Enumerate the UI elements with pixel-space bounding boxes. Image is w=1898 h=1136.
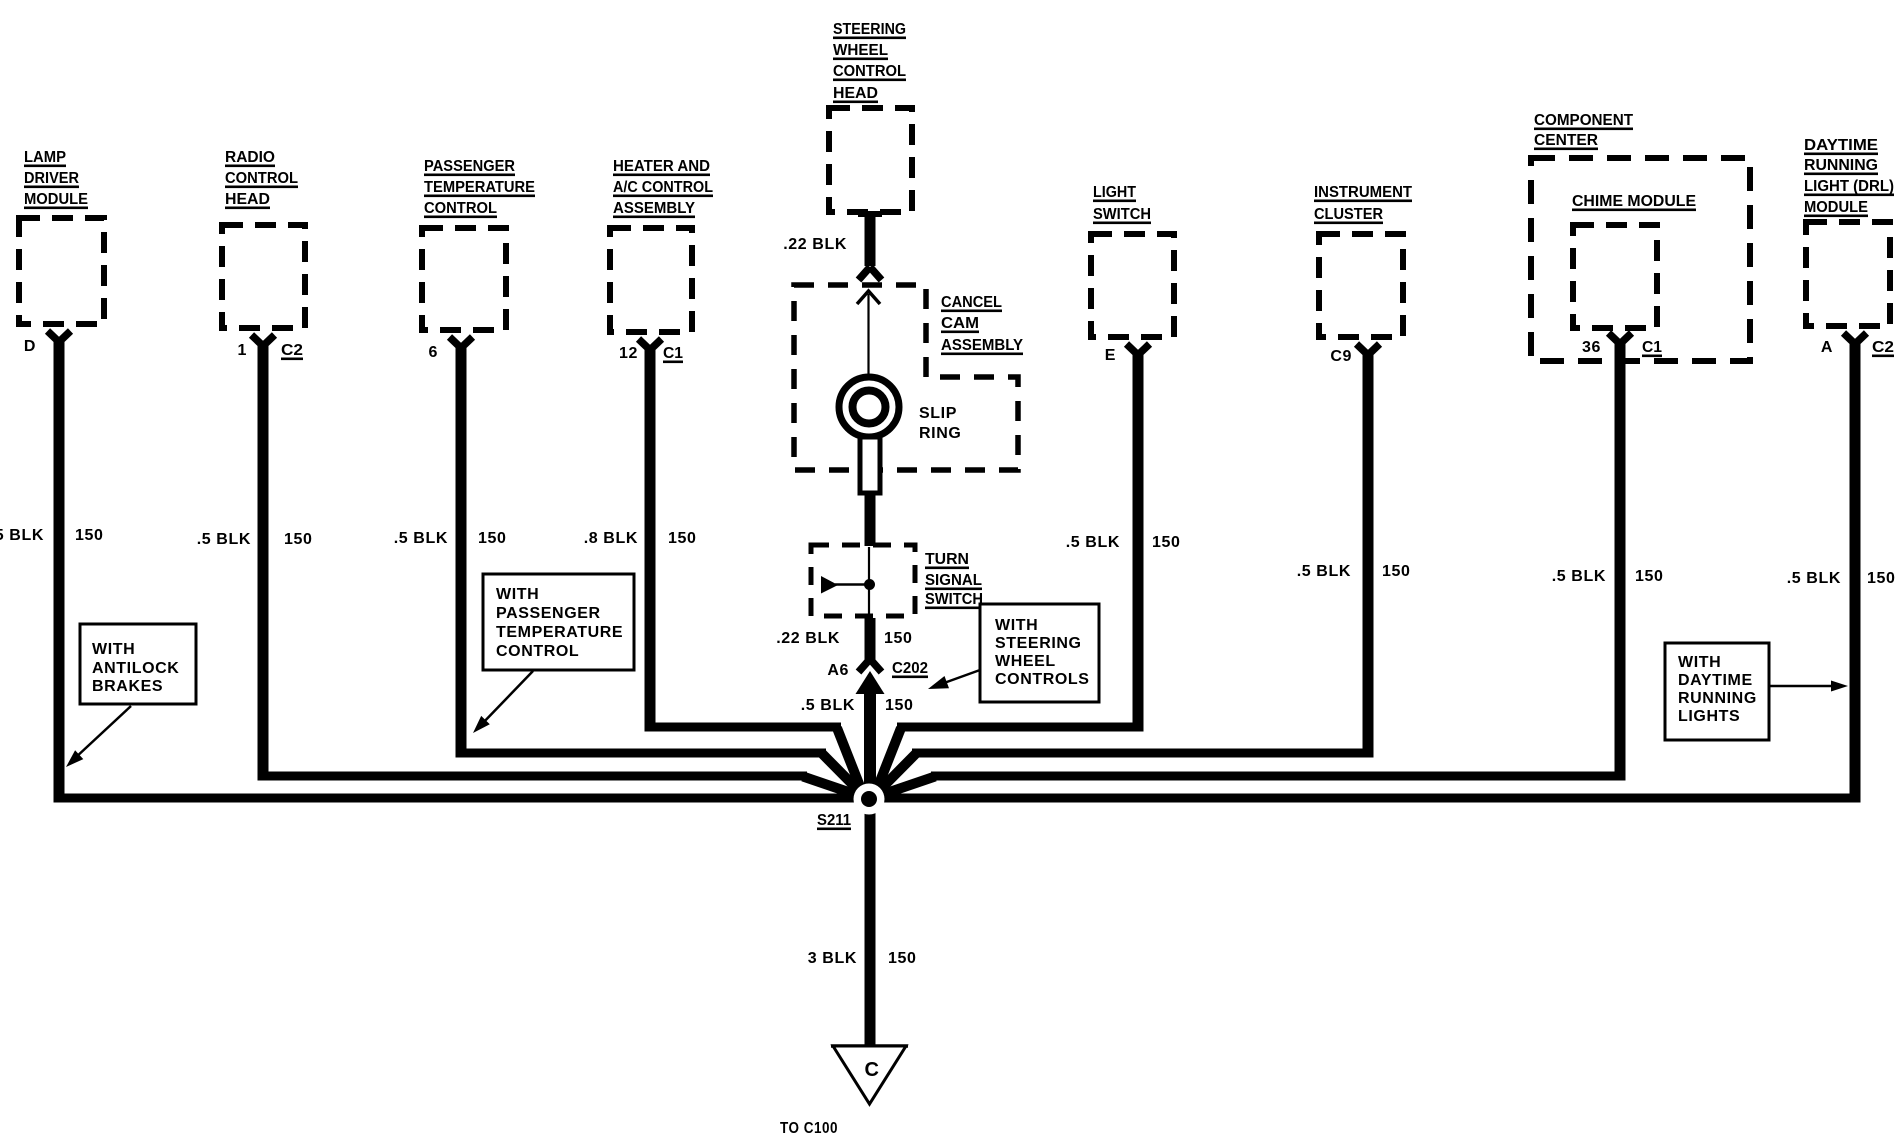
wire .22 BLK 150 below turn signal switch — [865, 618, 876, 661]
callout WITH DAYTIME RUNNING LIGHTS — [1665, 643, 1769, 740]
wire .8 BLK 150 from heater a/c assembly — [645, 345, 656, 732]
svg-text:C: C — [864, 1059, 879, 1081]
splice S211 — [854, 784, 885, 815]
connector V (down) at end of .22 BLK wire — [859, 267, 882, 280]
svg-text:SIGNAL: SIGNAL — [925, 572, 982, 589]
svg-text:INSTRUMENT: INSTRUMENT — [1314, 184, 1412, 201]
svg-text:.5 BLK: .5 BLK — [1297, 563, 1351, 580]
module LIGHT SWITCH box — [1091, 234, 1174, 337]
svg-text:150: 150 — [668, 530, 697, 547]
svg-text:S211: S211 — [817, 812, 851, 829]
svg-text:STEERING: STEERING — [833, 21, 906, 38]
svg-text:150: 150 — [1867, 570, 1896, 587]
svg-text:WITH: WITH — [1678, 654, 1721, 671]
thin arrow up inside cancel cam — [867, 294, 869, 378]
callout WITH ANTILOCK BRAKES — [80, 624, 196, 704]
svg-text:HEAD: HEAD — [833, 85, 878, 102]
connector Y at instrument cluster — [1357, 344, 1380, 355]
bus wire DRL module to S211 — [869, 794, 1861, 803]
module HEATER AND A/C CONTROL ASSEMBLY box — [610, 228, 692, 332]
svg-text:DRIVER: DRIVER — [24, 170, 79, 187]
wire .5 BLK 150 from light switch — [1133, 350, 1144, 732]
svg-text:150: 150 — [1635, 568, 1664, 585]
slip ring symbol — [839, 377, 899, 437]
connector Y at chime module — [1609, 333, 1632, 344]
bus wire passenger temp to S211 — [456, 749, 827, 758]
svg-text:DAYTIME: DAYTIME — [1678, 672, 1753, 689]
svg-text:SWITCH: SWITCH — [925, 591, 983, 608]
connector Y at light switch — [1127, 344, 1150, 355]
svg-text:TO C100: TO C100 — [780, 1120, 838, 1136]
connector Y at lamp driver module — [48, 331, 71, 342]
svg-text:150: 150 — [1152, 534, 1181, 551]
wire .5 BLK 150 from passenger temperature control — [456, 343, 467, 758]
svg-text:RUNNING: RUNNING — [1678, 690, 1757, 707]
bus wire heater a/c to S211 — [645, 723, 842, 732]
svg-text:CAM: CAM — [941, 315, 979, 332]
svg-text:CONTROLS: CONTROLS — [995, 671, 1090, 688]
wire .5 BLK 150 from lamp driver module — [54, 337, 65, 803]
svg-text:.5 BLK: .5 BLK — [1787, 570, 1841, 587]
svg-text:.22 BLK: .22 BLK — [776, 630, 840, 647]
bus wire light switch to S211 — [897, 723, 1144, 732]
svg-text:CHIME MODULE: CHIME MODULE — [1572, 193, 1696, 210]
svg-text:HEAD: HEAD — [225, 191, 270, 208]
svg-text:WHEEL: WHEEL — [833, 42, 888, 59]
svg-text:RING: RING — [919, 425, 961, 442]
svg-text:CONTROL: CONTROL — [225, 170, 298, 187]
svg-text:LIGHTS: LIGHTS — [1678, 708, 1740, 725]
svg-text:6: 6 — [429, 344, 439, 361]
svg-text:C2: C2 — [1872, 339, 1894, 356]
svg-text:.5 BLK: .5 BLK — [394, 530, 448, 547]
svg-text:.5 BLK: .5 BLK — [1552, 568, 1606, 585]
svg-text:PASSENGER: PASSENGER — [496, 605, 601, 622]
svg-text:TEMPERATURE: TEMPERATURE — [424, 179, 535, 196]
connector Y at radio control head — [252, 335, 275, 346]
svg-text:.22 BLK: .22 BLK — [783, 236, 847, 253]
wire .5 BLK 150 arrow up to C202 — [856, 671, 885, 694]
svg-text:12: 12 — [619, 345, 638, 362]
svg-text:A6: A6 — [827, 662, 849, 679]
wire .5 BLK 150 from instrument cluster — [1363, 350, 1374, 758]
svg-text:E: E — [1105, 347, 1116, 364]
connector A6 / C202 — [859, 659, 882, 672]
svg-text:150: 150 — [1382, 563, 1411, 580]
module RADIO CONTROL HEAD box — [222, 225, 305, 328]
svg-text:150: 150 — [284, 531, 313, 548]
svg-text:LAMP: LAMP — [24, 149, 66, 166]
svg-text:WITH: WITH — [995, 617, 1038, 634]
svg-text:RADIO: RADIO — [225, 149, 275, 166]
svg-text:ASSEMBLY: ASSEMBLY — [941, 337, 1023, 354]
wire 3 BLK 150 down from S211 — [865, 799, 876, 1046]
wire from slip ring to turn signal switch — [865, 493, 876, 546]
svg-text:CENTER: CENTER — [1534, 132, 1598, 149]
bus wire chime module to S211 — [931, 772, 1626, 781]
svg-text:150: 150 — [888, 950, 917, 967]
svg-text:STEERING: STEERING — [995, 635, 1082, 652]
turn signal switch dashed box — [811, 545, 915, 616]
svg-text:150: 150 — [884, 630, 913, 647]
module STEERING WHEEL CONTROL HEAD box — [829, 108, 912, 212]
wire .5 BLK 150 from DRL module — [1850, 339, 1861, 803]
svg-text:150: 150 — [885, 697, 914, 714]
wire .5 BLK 150 from chime module — [1615, 339, 1626, 781]
bus wire lamp driver to S211 — [54, 794, 870, 803]
svg-text:3 BLK: 3 BLK — [808, 950, 857, 967]
callout WITH STEERING WHEEL CONTROLS — [980, 604, 1099, 702]
bus wire radio to S211 — [258, 772, 808, 781]
svg-text:.5 BLK: .5 BLK — [197, 531, 251, 548]
module INSTRUMENT CLUSTER box — [1319, 234, 1403, 337]
svg-text:CONTROL: CONTROL — [833, 63, 906, 80]
svg-text:COMPONENT: COMPONENT — [1534, 112, 1633, 129]
connector Y at passenger temperature control — [450, 337, 473, 348]
svg-text:MODULE: MODULE — [1804, 199, 1868, 216]
svg-text:1: 1 — [238, 342, 248, 359]
svg-text:RUNNING: RUNNING — [1804, 157, 1878, 174]
wire .5 BLK 150 from radio control head — [258, 341, 269, 781]
svg-text:PASSENGER: PASSENGER — [424, 158, 515, 175]
connector Y at heater a/c assembly — [639, 339, 662, 350]
module LAMP DRIVER MODULE box — [19, 218, 104, 324]
svg-text:.5 BLK: .5 BLK — [1066, 534, 1120, 551]
svg-text:LIGHT (DRL): LIGHT (DRL) — [1804, 178, 1894, 195]
svg-text:C202: C202 — [892, 660, 928, 677]
svg-text:SWITCH: SWITCH — [1093, 206, 1151, 223]
svg-text:MODULE: MODULE — [24, 191, 88, 208]
svg-text:A/C CONTROL: A/C CONTROL — [613, 179, 713, 196]
connector Y at DRL module — [1844, 333, 1867, 344]
svg-text:TEMPERATURE: TEMPERATURE — [496, 624, 623, 641]
bus wire instrument cluster to S211 — [912, 749, 1374, 758]
svg-text:150: 150 — [75, 527, 104, 544]
svg-text:CLUSTER: CLUSTER — [1314, 206, 1383, 223]
svg-text:WITH: WITH — [92, 641, 135, 658]
svg-text:BRAKES: BRAKES — [92, 678, 163, 695]
svg-text:DAYTIME: DAYTIME — [1804, 137, 1878, 154]
svg-text:WITH: WITH — [496, 586, 539, 603]
module DRL box — [1806, 222, 1890, 326]
callout WITH PASSENGER TEMPERATURE CONTROL — [483, 574, 634, 670]
svg-text:36: 36 — [1582, 339, 1601, 356]
cancel cam assembly dashed outline — [794, 285, 1018, 470]
svg-text:.5 BLK: .5 BLK — [801, 697, 855, 714]
svg-text:A: A — [1821, 339, 1833, 356]
svg-text:C1: C1 — [1642, 339, 1662, 356]
svg-text:LIGHT: LIGHT — [1093, 184, 1136, 201]
slip ring lower stub — [860, 437, 880, 493]
svg-text:HEATER AND: HEATER AND — [613, 158, 710, 175]
svg-text:CONTROL: CONTROL — [496, 643, 579, 660]
svg-text:.8 BLK: .8 BLK — [584, 530, 638, 547]
connector C triangle — [831, 1044, 908, 1048]
svg-text:SLIP: SLIP — [919, 405, 957, 422]
svg-text:ASSEMBLY: ASSEMBLY — [613, 200, 695, 217]
svg-text:150: 150 — [478, 530, 507, 547]
turn signal switch internal contact — [868, 547, 870, 616]
svg-text:WHEEL: WHEEL — [995, 653, 1056, 670]
wire .22 BLK from steering wheel control head — [858, 211, 882, 217]
component center dashed box — [1531, 158, 1750, 361]
svg-text:C2: C2 — [281, 342, 303, 359]
svg-text:D: D — [24, 338, 36, 355]
svg-text:CONTROL: CONTROL — [424, 200, 497, 217]
svg-text:.5 BLK: .5 BLK — [0, 527, 44, 544]
chime module dashed box — [1573, 225, 1657, 328]
svg-text:TURN: TURN — [925, 551, 969, 568]
svg-text:C9: C9 — [1330, 348, 1352, 365]
svg-text:ANTILOCK: ANTILOCK — [92, 660, 179, 677]
module PASSENGER TEMPERATURE CONTROL box — [422, 228, 506, 330]
svg-text:CANCEL: CANCEL — [941, 294, 1002, 311]
svg-text:C1: C1 — [663, 345, 683, 362]
